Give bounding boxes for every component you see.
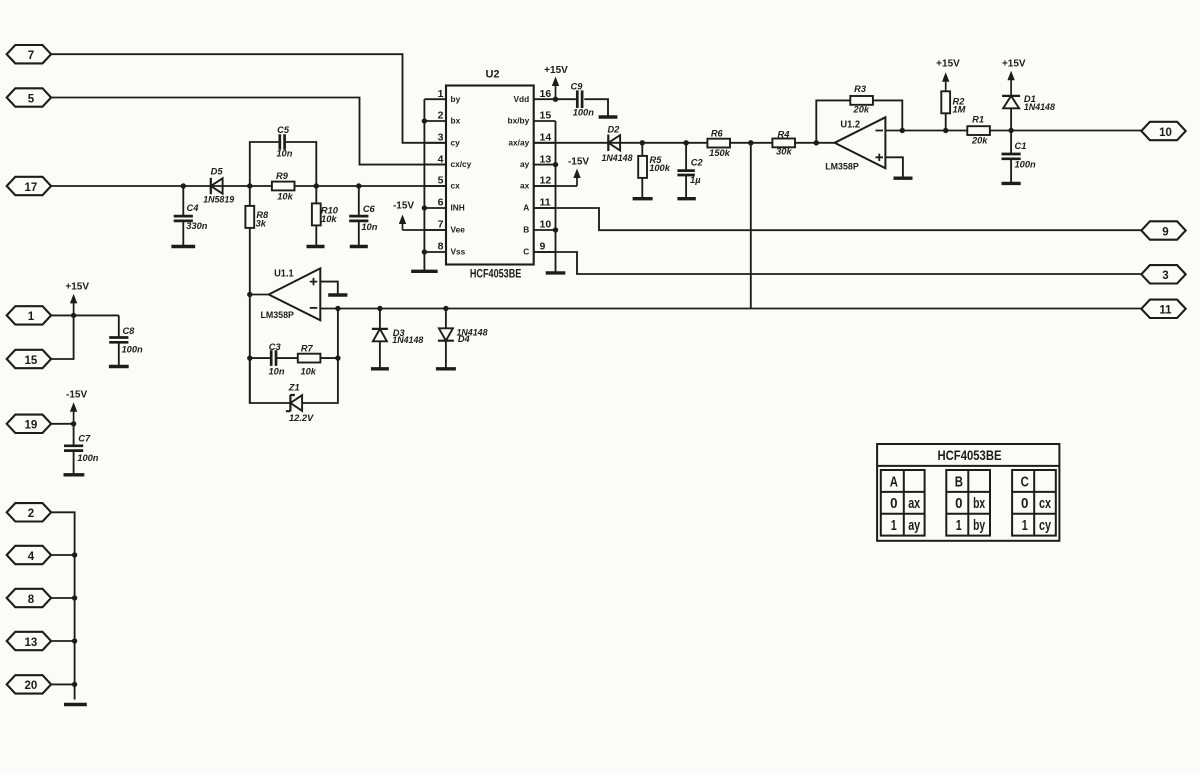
connector 2: [7, 503, 51, 521]
node R6/R4 junction to connector 11 line: [748, 140, 753, 145]
zener diode Z1 12.2V: [286, 395, 302, 411]
svg-text:ay: ay: [520, 159, 530, 169]
power +15V arrow at conn1: [73, 302, 75, 315]
svg-text:15: 15: [25, 355, 38, 367]
wire C9 to ground: [584, 99, 608, 116]
svg-text:Vdd: Vdd: [514, 94, 530, 104]
connector 5: [7, 88, 51, 106]
svg-text:LM358P: LM358P: [825, 161, 859, 172]
node Vdd pin16 junction: [553, 97, 558, 102]
wire U1.1 minus line to connector 11: [320, 308, 1141, 310]
U1.1 minus input sign: [310, 307, 318, 309]
svg-text:4: 4: [28, 551, 35, 563]
svg-text:+15V: +15V: [936, 58, 960, 69]
node ground bus junction conn8: [72, 595, 77, 600]
ground under C6: [350, 245, 368, 248]
svg-text:LM358P: LM358P: [260, 310, 294, 321]
power -15V arrow at U2 pin12: [576, 177, 578, 186]
svg-text:11: 11: [540, 197, 551, 209]
wire conn13 to ground bus: [51, 640, 75, 642]
connector 4: [7, 546, 51, 564]
node ground bus junction conn13: [72, 638, 77, 643]
svg-text:cy: cy: [1039, 518, 1051, 534]
svg-text:R4: R4: [778, 129, 791, 139]
node U1.1 output junction: [247, 292, 252, 297]
resistor R9: [272, 182, 295, 191]
svg-text:-15V: -15V: [568, 157, 589, 168]
op-amp U1.2 LM358P: [835, 117, 886, 168]
power +15V arrow at U2 pin16: [555, 85, 557, 99]
resistor R7: [298, 354, 321, 363]
wire conn1 +15V rail to C8: [51, 314, 119, 316]
svg-text:C7: C7: [78, 433, 91, 443]
svg-text:+15V: +15V: [65, 281, 89, 292]
connector 17: [7, 177, 51, 195]
svg-text:R3: R3: [854, 84, 867, 94]
ground under D4: [436, 367, 456, 370]
wire conn7 to U2 pin3 cy: [51, 54, 446, 143]
junction dots right bus pins 13 10: [553, 162, 558, 167]
ground under D3: [371, 367, 389, 370]
wire conn5 to U2 pin4 cx/cy: [51, 98, 446, 165]
svg-text:7: 7: [438, 219, 444, 231]
svg-text:R1: R1: [972, 114, 984, 124]
connector 11: [1141, 300, 1185, 318]
svg-text:9: 9: [1162, 226, 1168, 238]
node R3 feedback left junction: [814, 140, 819, 145]
svg-text:100k: 100k: [649, 163, 671, 173]
resistor R4: [772, 139, 795, 148]
svg-text:30k: 30k: [776, 147, 792, 157]
svg-text:C6: C6: [363, 204, 376, 214]
svg-text:R6: R6: [711, 129, 724, 139]
svg-text:330n: 330n: [186, 221, 208, 231]
capacitor C3: [271, 350, 276, 366]
svg-text:20: 20: [25, 680, 38, 692]
svg-text:U1.2: U1.2: [840, 120, 860, 131]
svg-text:10n: 10n: [361, 222, 377, 232]
svg-text:1N4148: 1N4148: [1024, 102, 1056, 112]
svg-text:ay: ay: [908, 518, 920, 534]
diode D4 1N4148: [443, 306, 448, 311]
svg-text:1N4148: 1N4148: [602, 153, 634, 163]
svg-text:3: 3: [438, 132, 444, 144]
ground at U1.1 plus input: [328, 293, 347, 296]
table title HCF4053BE: [877, 465, 1059, 467]
svg-text:6: 6: [438, 197, 444, 209]
wire U1.1 output to left bus: [250, 294, 269, 296]
wire conn4 to ground bus: [51, 554, 75, 556]
U2 right pin stubs: [534, 98, 556, 100]
svg-text:8: 8: [28, 594, 35, 606]
U1.2 minus input sign: [876, 130, 884, 132]
node C2 junction: [683, 140, 688, 145]
svg-text:by: by: [973, 518, 985, 534]
U1.1 plus input sign: [310, 278, 318, 285]
svg-text:100n: 100n: [1015, 160, 1037, 170]
svg-text:B: B: [955, 474, 963, 490]
op-amp U2 body HCF4053BE: [446, 86, 534, 265]
U2 left pin stubs: [424, 98, 446, 100]
svg-text:19: 19: [25, 420, 38, 432]
table section A: [881, 470, 925, 536]
table section B: [946, 470, 990, 536]
svg-text:C: C: [523, 247, 529, 257]
svg-text:R7: R7: [301, 344, 314, 354]
table HCF4053BE outer box: [877, 444, 1059, 541]
svg-text:2: 2: [28, 508, 34, 520]
diode D2 1N4148: [608, 135, 620, 151]
wire ax/ay pin14 through D2 R6 R4 to U1.2: [534, 142, 835, 144]
connector 1: [7, 306, 51, 324]
connector 9: [1141, 221, 1185, 239]
connector 10: [1141, 122, 1185, 140]
svg-text:C8: C8: [122, 326, 135, 336]
resistor R5: [641, 143, 643, 157]
svg-text:U1.1: U1.1: [274, 269, 294, 280]
diode D5 1N5819: [211, 178, 223, 194]
svg-text:5: 5: [438, 175, 444, 187]
diode D1 1N4148 with +15V: [1010, 108, 1012, 130]
svg-text:1N5819: 1N5819: [203, 195, 235, 205]
svg-text:Vss: Vss: [451, 247, 466, 257]
svg-text:Vee: Vee: [451, 225, 466, 235]
capacitor C2: [685, 143, 687, 171]
capacitor C9: [556, 98, 576, 100]
wire conn20 to ground bus: [51, 683, 75, 685]
capacitor C5: [280, 134, 285, 150]
svg-text:HCF4053BE: HCF4053BE: [938, 448, 1002, 463]
wire junction down to output line: [750, 143, 752, 309]
svg-text:100n: 100n: [573, 108, 595, 118]
junction dots on U2 left bus pins 2 6 8: [422, 118, 427, 123]
node minus/C3R7 junction: [335, 306, 340, 311]
svg-text:cx: cx: [451, 181, 461, 191]
resistor R2 with +15V: [941, 91, 950, 113]
ground under connector bus: [64, 703, 87, 706]
svg-text:2: 2: [438, 110, 444, 122]
wire ax pin12 to -15V arrow: [534, 185, 577, 187]
svg-text:3: 3: [1162, 270, 1168, 282]
svg-text:13: 13: [540, 153, 552, 165]
svg-text:C: C: [1021, 474, 1030, 490]
svg-text:10: 10: [540, 219, 552, 231]
connector 8: [7, 589, 51, 607]
node ground bus junction conn20: [72, 682, 77, 687]
svg-text:C1: C1: [1015, 141, 1027, 151]
svg-text:100n: 100n: [121, 344, 143, 354]
capacitor C4: [182, 186, 184, 216]
right ground bus from pin15: [555, 121, 557, 272]
svg-text:0: 0: [890, 496, 897, 512]
wire A pin11 to connector 9: [534, 208, 1142, 230]
ground under R10: [307, 245, 325, 248]
node C4 junction: [181, 183, 186, 188]
connector 7: [7, 45, 51, 63]
wire C5 feedback loop left leg: [250, 142, 279, 186]
wire conn2 ground bus: [51, 512, 75, 699]
left pin bus of U2 with ground: [423, 99, 425, 270]
svg-text:1M: 1M: [953, 105, 966, 115]
capacitor C8: [118, 315, 120, 337]
svg-text:-15V: -15V: [393, 201, 414, 212]
wire C pin9 to connector 3: [534, 252, 1142, 274]
svg-text:INH: INH: [451, 203, 465, 213]
svg-text:10k: 10k: [277, 191, 293, 201]
svg-text:-15V: -15V: [66, 389, 87, 400]
node C3 left junction: [247, 355, 252, 360]
svg-text:1: 1: [891, 518, 897, 534]
op-amp U1.1 LM358P: [269, 268, 321, 320]
svg-text:bx: bx: [451, 116, 461, 126]
connector 19: [7, 415, 51, 433]
svg-text:17: 17: [25, 182, 38, 194]
svg-text:bx/by: bx/by: [508, 116, 530, 126]
svg-text:5: 5: [28, 93, 35, 105]
ground under C4: [171, 245, 195, 248]
svg-text:9: 9: [540, 241, 546, 253]
node R9/R10 junction: [314, 183, 319, 188]
svg-text:10k: 10k: [300, 367, 316, 377]
svg-text:20k: 20k: [971, 136, 988, 146]
wire C3 R7 feedback line: [250, 357, 271, 359]
node ground bus junction conn4: [72, 552, 77, 557]
svg-text:7: 7: [28, 50, 34, 62]
svg-text:A: A: [890, 474, 899, 490]
svg-text:by: by: [451, 94, 461, 104]
svg-text:10k: 10k: [321, 214, 337, 224]
svg-text:D2: D2: [607, 124, 620, 134]
capacitor C6: [358, 186, 360, 216]
ground under U2 right bus: [546, 271, 566, 274]
svg-text:C9: C9: [571, 82, 584, 92]
node R7 right junction: [335, 355, 340, 360]
svg-text:13: 13: [25, 637, 38, 649]
svg-text:A: A: [523, 203, 529, 213]
svg-text:100n: 100n: [77, 453, 99, 463]
wire conn8 to ground bus: [51, 597, 75, 599]
ground under R5: [633, 197, 653, 200]
ground under U2 left bus: [411, 270, 437, 273]
svg-text:150k: 150k: [709, 148, 731, 158]
svg-text:10n: 10n: [268, 367, 284, 377]
ground under C9: [599, 115, 618, 118]
svg-text:bx: bx: [973, 496, 985, 512]
svg-text:C4: C4: [187, 203, 200, 213]
svg-text:HCF4053BE: HCF4053BE: [470, 267, 522, 281]
ground under C8: [109, 365, 129, 368]
svg-text:10: 10: [1159, 127, 1172, 139]
svg-text:ax: ax: [520, 181, 530, 191]
svg-text:20k: 20k: [853, 105, 870, 115]
svg-text:+15V: +15V: [544, 65, 568, 76]
wire conn17 main line to U2 pin5 cx: [51, 185, 446, 187]
svg-text:16: 16: [540, 88, 552, 100]
connector 15: [7, 350, 51, 368]
svg-text:15: 15: [540, 110, 552, 122]
capacitor C1: [1010, 131, 1012, 155]
svg-text:1µ: 1µ: [690, 175, 701, 185]
node D1/C1 junction: [1008, 128, 1013, 133]
svg-text:11: 11: [1159, 305, 1172, 317]
resistor R8 and vertical bus to U1.1: [249, 186, 251, 403]
svg-text:C5: C5: [277, 125, 290, 135]
svg-text:cx: cx: [1039, 496, 1051, 512]
svg-text:1N4148: 1N4148: [392, 335, 424, 345]
wire left bus to Z1: [250, 358, 291, 403]
svg-text:Z1: Z1: [288, 382, 300, 392]
svg-text:0: 0: [955, 496, 962, 512]
ground at U1.2 plus input: [894, 176, 913, 179]
svg-text:4: 4: [438, 153, 444, 165]
U1.2 plus input sign: [876, 154, 884, 161]
svg-text:C2: C2: [691, 157, 704, 167]
svg-text:cy: cy: [451, 137, 461, 147]
ground under C1: [1002, 182, 1021, 185]
wire R3 feedback right leg: [873, 100, 903, 130]
svg-text:12.2V: 12.2V: [289, 413, 314, 423]
svg-text:0: 0: [1021, 496, 1028, 512]
wire C5 right leg down to R9 output node: [286, 142, 316, 186]
svg-text:R9: R9: [276, 171, 289, 181]
svg-text:10n: 10n: [276, 148, 292, 158]
power -15V arrow at U2 pin7: [402, 223, 404, 230]
resistor R3: [850, 96, 873, 105]
svg-text:1: 1: [438, 88, 444, 100]
ground under C7: [64, 473, 85, 476]
svg-text:cx/cy: cx/cy: [451, 159, 472, 169]
wire U1.2 plus input to ground: [885, 157, 903, 177]
wire R3 feedback left leg: [816, 100, 850, 142]
node R8/C5/R9 junction: [247, 183, 252, 188]
svg-text:12: 12: [540, 175, 552, 187]
svg-text:C3: C3: [269, 342, 282, 352]
capacitor C7: [73, 424, 75, 446]
resistor R10: [315, 186, 317, 203]
resistor R6: [707, 139, 730, 148]
node -15V rail junction: [71, 421, 76, 426]
svg-text:U2: U2: [485, 69, 499, 81]
diode D3 1N4148: [377, 306, 382, 311]
svg-text:14: 14: [540, 132, 552, 144]
wire U1.2 minus input line: [885, 130, 1141, 132]
node C6 junction: [356, 183, 361, 188]
svg-text:1: 1: [1022, 518, 1028, 534]
power -15V arrow at conn19: [73, 411, 75, 424]
connector 20: [7, 675, 51, 693]
connector 3: [1141, 265, 1185, 283]
svg-text:ax: ax: [908, 496, 920, 512]
svg-text:B: B: [523, 225, 529, 235]
node R2 junction: [943, 128, 948, 133]
svg-text:1: 1: [956, 518, 962, 534]
svg-text:8: 8: [438, 241, 444, 253]
ground under C2: [677, 197, 695, 200]
node +15V rail junction: [71, 313, 76, 318]
connector 13: [7, 632, 51, 650]
node R3/minus junction: [900, 128, 905, 133]
resistor R1: [967, 126, 990, 135]
table section C: [1012, 470, 1056, 536]
svg-text:3k: 3k: [256, 219, 267, 229]
svg-text:ax/ay: ax/ay: [508, 137, 529, 147]
svg-text:D5: D5: [211, 166, 224, 176]
wire conn15 up to rail: [51, 315, 74, 359]
svg-text:+15V: +15V: [1002, 58, 1026, 69]
wire conn19 -15V rail: [51, 423, 74, 425]
node R5 junction: [640, 140, 645, 145]
wire right feedback vertical to Z1: [302, 309, 338, 404]
wire U1.1 plus input to ground bar: [320, 282, 338, 294]
svg-text:1: 1: [28, 311, 35, 323]
wire Vee pin7 to -15V arrow: [403, 229, 447, 231]
svg-text:D4: D4: [458, 334, 471, 344]
